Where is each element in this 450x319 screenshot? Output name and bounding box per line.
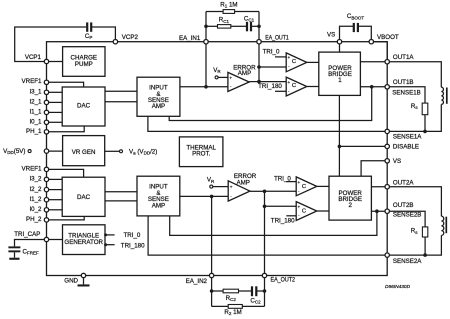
resistor R2 1M (228, 305, 242, 309)
svg-text:VS: VS (327, 32, 335, 39)
wire load 1 bottom to SENSE1A (387, 104, 441, 131)
wire error amp 2 output (250, 190, 265, 192)
pin OUT2B SENSE2B (385, 209, 389, 213)
junction Rs1 SENSE1A (423, 130, 427, 134)
junction Rs2 SENSE2A (423, 253, 427, 257)
wire Cfref to ground bar (14, 252, 16, 257)
wire power bridge 2 to OUT2B pin (371, 210, 387, 212)
junction triangle generator TRI_180 stub root (104, 243, 107, 246)
svg-text:DAC: DAC (77, 103, 91, 110)
pin VDD (44, 149, 48, 153)
wire I0_2 to DAC2 (47, 209, 63, 211)
wire CC1 to riser (252, 25, 260, 27)
svg-text:I3_2: I3_2 (29, 176, 42, 183)
wire EA_OUT2 pin vertical (264, 191, 266, 275)
junction error amp 2 minus EA_IN2 (210, 195, 214, 199)
svg-text:SENSE2A: SENSE2A (393, 258, 422, 265)
pin I2_2 (44, 187, 48, 191)
pin I1_2 (44, 198, 48, 202)
wire EA_IN2 drop (211, 276, 213, 307)
svg-text:VREF1: VREF1 (22, 165, 43, 172)
junction EA_IN2 riser RC2 (210, 289, 214, 293)
junction C4 plus tap (263, 205, 267, 209)
wire TRI_180 stub to C4 minus (286, 215, 296, 217)
wire C2 output to power bridge 1 (307, 86, 319, 88)
capacitor CC1 plates (246, 22, 248, 32)
junction EA_OUT1 C1 minus (257, 65, 261, 69)
pin OUT2A (385, 185, 389, 189)
wire PH_1 to DAC1 bottom (47, 126, 85, 132)
svg-text:EA_OUT2: EA_OUT2 (271, 276, 296, 283)
wire TRI_0 stub to C3 plus (286, 181, 296, 183)
wire Rs2 to SENSE2A rail (424, 237, 426, 255)
wire DAC2 out A to sense amp 2 (105, 191, 137, 193)
resistor RC1 (218, 25, 231, 29)
svg-text:RC1: RC1 (219, 17, 230, 24)
wire RC1 to CC1 (231, 25, 246, 27)
svg-text:I2_2: I2_2 (29, 186, 42, 193)
terminal VR error amp 2 (210, 185, 213, 188)
inductor load 1 coil (441, 87, 443, 104)
junction error amp 1 minus EA_IN1 (204, 85, 208, 89)
wire power bridge 1 to OUT1A pin (360, 61, 387, 63)
junction EA_OUT2 riser CC2 (263, 289, 267, 293)
pin EA_OUT2 (262, 273, 266, 277)
svg-text:Rs: Rs (411, 103, 418, 110)
wire OUT2B to Rs2 (387, 211, 425, 227)
wire RC2 row left (212, 290, 224, 292)
svg-text:I2_1: I2_1 (29, 99, 42, 106)
svg-text:I1_1: I1_1 (29, 109, 42, 116)
wire power bridge1 bottom to power bridge2 top disable rail (338, 95, 340, 176)
svg-text:+: + (230, 185, 233, 190)
wire I1_2 to DAC2 (47, 199, 63, 201)
wire OUT1B to Rs1 (387, 87, 425, 103)
thermal protection block (179, 137, 223, 167)
svg-text:EA_IN1: EA_IN1 (179, 35, 201, 42)
svg-text:CC1: CC1 (244, 15, 255, 22)
resistor Rs2 (422, 227, 427, 237)
wire VS2 pin stub (361, 161, 387, 176)
svg-text:SENSE1B: SENSE1B (392, 90, 421, 97)
comparator C1 (TRI_0 bridge1) (286, 53, 307, 72)
svg-text:SENSE2B: SENSE2B (393, 212, 422, 219)
junction DISABLE rail (338, 145, 342, 149)
wire EA_OUT1 to comparator C1 minus (259, 66, 286, 68)
VR GEN block (63, 136, 105, 166)
pin VS right (385, 159, 389, 163)
svg-text:TRI_0: TRI_0 (274, 175, 291, 182)
wire EA_OUT1 pin vertical (258, 42, 260, 82)
svg-text:1: 1 (338, 77, 342, 84)
svg-text:I1_2: I1_2 (29, 196, 42, 203)
input & sense amp 2 block (137, 176, 180, 216)
triangle generator block (63, 225, 106, 255)
svg-text:VR GEN: VR GEN (72, 149, 96, 156)
wire VBOOT drop to OUT1A (386, 42, 388, 62)
svg-text:PH_1: PH_1 (26, 128, 42, 135)
svg-text:CBOOT: CBOOT (347, 13, 364, 20)
svg-text:+: + (288, 55, 291, 60)
pin VS top (337, 40, 341, 44)
wire I1_1 to DAC1 (47, 111, 63, 113)
pin DISABLE (385, 144, 389, 148)
wire DAC1 out A to sense amp 1 (105, 90, 137, 92)
wire RC2 to CC2 (239, 290, 252, 292)
wire power bridge 1 to OUT1B pin (360, 86, 387, 88)
comparator C4 (TRI_180 bridge2) (296, 202, 317, 221)
wire I2_1 to DAC1 (47, 101, 63, 103)
resistor Rs1 (422, 103, 428, 115)
svg-text:PH_2: PH_2 (26, 216, 42, 223)
svg-text:R1 1M: R1 1M (220, 1, 237, 8)
terminal Va output (120, 150, 123, 153)
capacitor CBOOT plates (353, 23, 355, 32)
svg-text:2: 2 (348, 202, 352, 209)
svg-text:+: + (298, 205, 301, 210)
power bridge 1 block (319, 52, 361, 95)
resistor RC2 (223, 289, 238, 293)
input & sense amp 1 block (137, 77, 180, 116)
wire OUT2A to load 2 (387, 187, 441, 217)
wire Rs1 to SENSE1A rail (424, 115, 426, 132)
wire I0_1 to DAC1 (47, 121, 63, 123)
svg-text:C: C (302, 208, 306, 214)
pin EA_IN2 (209, 273, 213, 277)
svg-text:VDD(5V): VDD(5V) (3, 148, 25, 155)
wire VREF2 to DAC2 top (47, 169, 84, 177)
svg-text:+: + (229, 76, 232, 81)
svg-text:I3_1: I3_1 (29, 89, 42, 96)
svg-text:C: C (302, 184, 306, 190)
svg-text:VBOOT: VBOOT (377, 34, 399, 41)
svg-text:OUT2A: OUT2A (393, 179, 415, 186)
capacitor CP plates (86, 22, 88, 31)
wire EA_IN2 pin to error amp 2 input (211, 196, 213, 275)
wire triangle generator TRI_180 stub (105, 244, 115, 246)
inductor load 2 coil (441, 216, 443, 235)
wire VS pin to power bridge 1 top (339, 42, 341, 52)
wire EA_OUT1 riser (258, 12, 260, 42)
wire to comparator C4 plus (265, 205, 297, 207)
wire TRI_CAP to Cfref (15, 240, 47, 247)
comparator C3 (TRI_0 bridge2) (296, 177, 317, 196)
pin I2_1 (44, 100, 48, 104)
wire DISABLE pin stub (339, 145, 387, 147)
wire I3_1 to DAC1 (47, 91, 63, 93)
inductor load 2 core bar (445, 217, 447, 234)
junction EA_OUT1 riser RC1 (257, 25, 261, 29)
junction OUT1B sense tap (370, 85, 374, 89)
wire sense1B feedback to sense amp 1 (169, 87, 372, 121)
svg-text:D96IN430D: D96IN430D (385, 284, 411, 290)
wire R2 row right (242, 305, 264, 307)
svg-text:AMP: AMP (152, 103, 165, 110)
svg-text:TRI_180: TRI_180 (258, 83, 282, 90)
wire TRI_180 stub to C2 minus (275, 90, 286, 92)
wire VR GEN to Va terminal (105, 150, 120, 152)
svg-text:TRI_180: TRI_180 (271, 218, 295, 225)
wire DAC1 out B to sense amp 1 (105, 101, 137, 103)
svg-text:RC2: RC2 (226, 295, 237, 302)
wire VREF1 to DAC1 top (47, 82, 84, 87)
power bridge 2 block (329, 176, 371, 220)
wire power bridge 2 to OUT2A pin (371, 186, 387, 188)
op-amp error amp 1 (228, 72, 249, 91)
svg-text:I0_1: I0_1 (29, 119, 42, 126)
wire C4 output to power bridge 2 (317, 210, 329, 212)
wire I3_2 to DAC2 (47, 178, 63, 180)
svg-text:SENSE1A: SENSE1A (393, 134, 422, 141)
svg-text:CFREF: CFREF (23, 249, 39, 256)
svg-text:C: C (292, 59, 296, 65)
svg-text:VR: VR (213, 67, 221, 74)
svg-text:GENERATOR: GENERATOR (64, 239, 103, 246)
svg-text:VCP1: VCP1 (25, 54, 42, 61)
wire I2_2 to DAC2 (47, 189, 63, 191)
pin PH_1 (44, 130, 48, 134)
svg-text:CC2: CC2 (250, 297, 261, 304)
terminal VR error amp 1 (215, 76, 218, 79)
pin VCP2 (113, 40, 117, 44)
ground bar below GND pin (78, 284, 90, 286)
svg-text:I0_2: I0_2 (29, 206, 42, 213)
wire sense amp 1 out to error amp 1 minus (180, 86, 228, 88)
svg-text:EA_IN2: EA_IN2 (186, 278, 208, 285)
comparator C2 (TRI_180 bridge1) (286, 77, 307, 96)
wire SENSE1A to sense amp 1 (148, 116, 387, 131)
svg-text:PUMP: PUMP (75, 61, 93, 68)
wire R1 to EAOUT riser (235, 11, 259, 13)
svg-text:EA_OUT1: EA_OUT1 (265, 35, 289, 42)
wire GND pin stub (83, 276, 85, 285)
wire OUT1A to load 1 (387, 62, 441, 87)
terminal VDD external (28, 150, 31, 153)
resistor R1 1M (223, 10, 235, 14)
svg-text:Rs: Rs (411, 228, 418, 235)
wire R2 row left (212, 305, 229, 307)
pin PH_2 (44, 218, 48, 222)
wire EA_IN1 pin to error amp 1 input (205, 42, 207, 87)
wire VS riser to Cboot (340, 26, 354, 41)
pin I1_1 (44, 110, 48, 114)
pin SENSE2A (385, 253, 389, 257)
junction EA_IN1 riser RC1 (204, 25, 208, 29)
pin VCP1 (44, 59, 48, 63)
svg-text:VR: VR (207, 177, 215, 184)
wire charge pump loop VCP1 to CP cap (15, 27, 86, 62)
junction OUT2B sense tap (375, 209, 379, 213)
wire SENSE2A to sense amp 2 (148, 216, 387, 255)
wire R1 top row (206, 11, 223, 13)
wire load 2 bottom to SENSE2A (387, 235, 441, 255)
ground bar below CFREF (9, 258, 19, 260)
wire VDD to VR GEN (47, 150, 63, 152)
svg-text:Va (VDD/2): Va (VDD/2) (129, 148, 157, 155)
pin TRI_CAP (44, 237, 48, 241)
pin I0_1 (44, 120, 48, 124)
wire PH_2 to DAC2 bottom (47, 216, 85, 220)
wire error amp 2 out to comparator C3 minus (265, 190, 297, 192)
wire VR1 terminal to error amp 1 plus (218, 76, 228, 78)
svg-text:AMP: AMP (236, 180, 249, 187)
junction triangle generator TRI_0 stub root (104, 233, 107, 236)
DAC 1 block (62, 87, 105, 126)
junction error amp 2 out (263, 190, 267, 194)
wire C1 output to power bridge 1 (307, 61, 319, 63)
svg-text:DAC: DAC (77, 194, 91, 201)
pin OUT1A (385, 60, 389, 64)
junction error amp 1 out (257, 80, 261, 84)
wire EA_IN1 riser (205, 12, 207, 42)
pin I3_2 (44, 177, 48, 181)
wire VBOOT to OUT1A node (371, 41, 387, 43)
pin VREF1 (44, 80, 48, 84)
wire sense amp 2 out to error amp 2 minus (180, 195, 228, 197)
svg-text:R2 1M: R2 1M (224, 309, 241, 316)
svg-text:TRI_180: TRI_180 (121, 242, 145, 249)
wire error amp 1 out to comparator C2 plus (259, 81, 286, 83)
svg-text:GND: GND (64, 278, 78, 285)
wire TRI_0 stub to C1 plus (275, 56, 286, 58)
op-amp error amp 2 (228, 181, 250, 201)
pin I0_2 (44, 208, 48, 212)
pin SENSE1A (385, 129, 389, 133)
wire VCP1 to charge pump (47, 61, 63, 63)
wire sense2B feedback to sense amp 2 (170, 211, 377, 235)
svg-text:OUT1B: OUT1B (393, 79, 414, 86)
svg-text:C: C (292, 83, 296, 89)
wire CP cap to VCP2 (92, 27, 116, 42)
pin OUT1B SENSE1B (385, 85, 389, 89)
svg-text:VS: VS (393, 158, 401, 165)
svg-text:TRI_0: TRI_0 (263, 49, 280, 56)
capacitor CFREF plates (8, 246, 20, 248)
wire CC2 to EA_OUT2 drop (257, 290, 265, 292)
svg-text:+: + (298, 180, 301, 185)
svg-text:PROT.: PROT. (192, 151, 211, 158)
wire error amp 1 output (249, 81, 259, 83)
DAC 2 block (62, 177, 105, 216)
capacitor CC2 plates (251, 286, 253, 296)
svg-text:OUT2B: OUT2B (393, 202, 414, 209)
svg-text:AMP: AMP (238, 70, 251, 77)
svg-text:OUT1A: OUT1A (393, 54, 415, 61)
wire EA_OUT2 drop (264, 276, 266, 307)
pin I3_1 (44, 90, 48, 94)
wire Cboot to VBOOT (358, 26, 371, 41)
wire RC1 row left (206, 25, 218, 27)
wire DAC2 out B to sense amp 2 (105, 200, 137, 202)
wire triangle generator TRI_0 stub (105, 234, 115, 236)
charge pump block (63, 47, 105, 77)
pin VBOOT (369, 40, 373, 44)
svg-text:TRI_CAP: TRI_CAP (14, 231, 40, 238)
svg-text:DISABLE: DISABLE (393, 144, 419, 151)
wire TRI_CAP to triangle generator (47, 239, 63, 241)
pin VREF2 (44, 167, 48, 171)
pin GND (81, 273, 85, 277)
wire C3 output to power bridge 2 (317, 185, 329, 187)
wire VR2 terminal to error amp 2 plus (213, 186, 229, 188)
svg-text:AMP: AMP (152, 202, 165, 209)
inductor load 1 core bar (446, 88, 448, 104)
svg-text:TRI_0: TRI_0 (124, 232, 141, 239)
svg-text:VCP2: VCP2 (122, 34, 139, 41)
svg-text:VREF1: VREF1 (22, 78, 43, 85)
chip boundary U1 (47, 42, 388, 276)
svg-text:+: + (288, 80, 291, 85)
svg-text:CP: CP (85, 33, 92, 40)
pin EA_IN1 (204, 40, 208, 44)
pin EA_OUT1 (257, 40, 261, 44)
